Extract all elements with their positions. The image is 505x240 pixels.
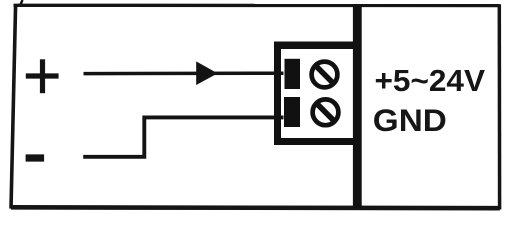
panel / device mounting edge <box>353 6 362 208</box>
terminal 2 wire clamp <box>284 97 300 127</box>
terminal 1 wire clamp <box>285 59 301 89</box>
terminal 2 screw head <box>313 99 339 125</box>
terminal block J1 outline <box>274 42 362 146</box>
positive supply symbol + <box>26 59 59 93</box>
wire from - to terminal 2 <box>83 117 283 156</box>
wire from + to terminal 1 <box>84 71 284 75</box>
svg-text:+5~24V: +5~24V <box>375 64 486 98</box>
arrowhead on + wire <box>196 61 217 85</box>
terminal 1 screw head <box>312 62 338 88</box>
svg-text:GND: GND <box>373 102 447 138</box>
negative supply symbol - <box>26 154 44 161</box>
